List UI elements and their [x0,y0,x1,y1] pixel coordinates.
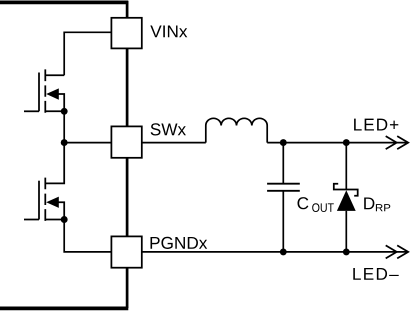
junction dot rail/capacitor bottom [280,248,287,255]
LED+ arrow chevrons [386,136,409,149]
junction dot SW node [61,139,68,146]
value label DRP [364,197,374,209]
transistor Q1 (high-side MOSFET) [24,69,64,112]
IC body outline bottom edge [0,306,128,310]
capacitor COUT plates [267,184,300,191]
pin box PGNDx [111,236,141,267]
wire LED- rail [142,251,408,253]
inductor L [206,118,267,142]
net label LED+ [354,119,398,131]
Q1 drain lead [45,74,64,76]
Q2 drain lead [45,143,64,184]
pin label PGNDx [151,237,208,249]
Q1 gate lead [24,110,39,112]
IC pin stub SWx to PGNDx [126,158,129,237]
Q2 gate lead [24,219,39,221]
IC pin stub VINx to SWx [126,48,129,127]
diode DRP anode triangle [337,190,356,211]
IC pin stub below PGNDx [126,267,129,308]
junction dot rail/diode bottom [343,248,350,255]
wire LED+ rail [267,142,408,144]
Q1 gate plate [38,73,40,112]
Q1 channel segments [44,69,46,112]
Q2 gate plate [38,181,40,220]
IC body outline top edge [0,1,128,5]
wire SW node to SWx box [64,142,111,144]
Q1 body-diode arrow [46,88,59,99]
LED- arrow chevrons [386,245,409,258]
net label LED- [353,268,398,280]
junction dot Q2 source [61,216,68,223]
pin box SWx [111,126,141,157]
capacitor COUT top lead [282,143,284,183]
Q2 body-diode arrow [46,197,59,208]
wire Q1 source to SW node [63,111,65,142]
pin label VINx [150,25,187,37]
Q2 source lead [45,219,64,221]
Q2 body lead [58,202,64,219]
wire VINx to Q1 drain [64,32,111,75]
diode DRP top lead [345,143,347,190]
Q1 body lead [58,94,64,111]
diode DRP schottky cathode bar [334,184,358,196]
Q1 source lead [45,110,64,112]
transistor Q2 (low-side MOSFET) [24,143,64,221]
value label COUT [298,197,309,209]
diode DRP bottom lead [345,211,347,252]
Q2 channel segments [44,178,46,221]
junction dot rail/diode [343,139,350,146]
capacitor COUT bottom lead [282,192,284,252]
pin box VINx [111,18,141,49]
wire Q2 source to PGNDx box [64,220,111,252]
junction dot Q1 source [61,108,68,115]
pin label SWx [151,123,186,135]
junction dot rail/capacitor [280,139,287,146]
wire SWx to inductor [142,142,206,144]
IC pin stub above VINx [126,1,129,18]
